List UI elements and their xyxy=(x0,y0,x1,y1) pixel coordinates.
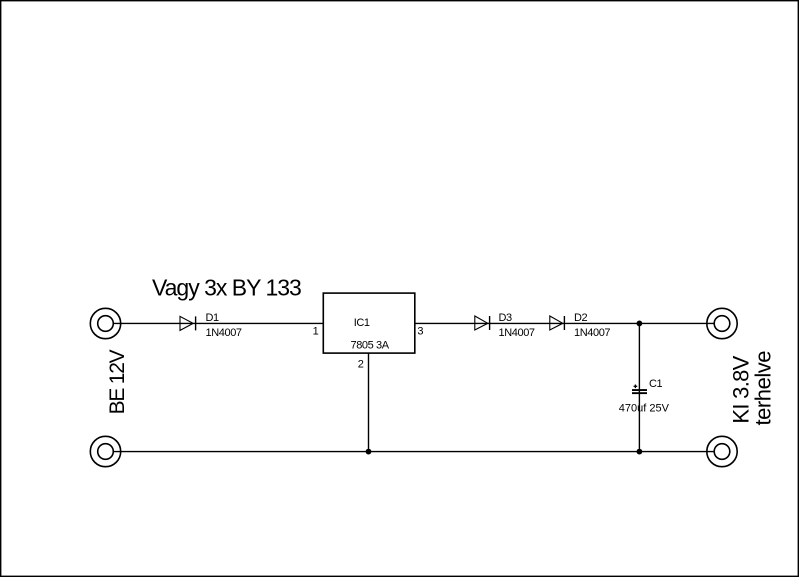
svg-text:IC1: IC1 xyxy=(354,317,370,329)
svg-text:D3: D3 xyxy=(499,312,513,324)
svg-text:2: 2 xyxy=(358,359,364,371)
svg-text:D2: D2 xyxy=(574,312,588,324)
svg-text:terhelve: terhelve xyxy=(750,351,775,426)
svg-text:D1: D1 xyxy=(206,312,220,324)
svg-text:470uf 25V: 470uf 25V xyxy=(619,403,670,415)
svg-text:7805 3A: 7805 3A xyxy=(351,339,390,351)
svg-text:1N4007: 1N4007 xyxy=(499,327,535,339)
svg-text:1: 1 xyxy=(313,325,319,337)
svg-text:BE 12V: BE 12V xyxy=(106,349,129,414)
svg-text:3: 3 xyxy=(417,326,423,338)
svg-text:1N4007: 1N4007 xyxy=(206,327,242,339)
svg-text:Vagy 3x BY 133: Vagy 3x BY 133 xyxy=(152,274,301,300)
svg-text:1N4007: 1N4007 xyxy=(574,327,610,339)
svg-text:C1: C1 xyxy=(649,378,663,390)
